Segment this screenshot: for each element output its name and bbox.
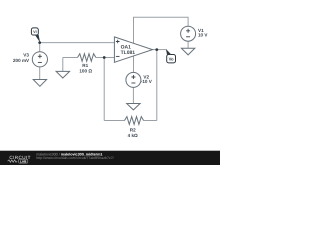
- V2 minus symbol: [131, 82, 135, 84]
- svg-text:100 Ω: 100 Ω: [79, 69, 92, 74]
- V3 plus symbol: [38, 54, 42, 58]
- svg-text:http://www.circuitlab.com/circ: http://www.circuitlab.com/circuit/77ab8f…: [36, 156, 113, 160]
- svg-text:TL081: TL081: [121, 50, 136, 56]
- ground V1: [181, 48, 194, 55]
- wire output right: [153, 49, 167, 51]
- wire V3 top: [39, 43, 41, 52]
- ground V3: [33, 80, 46, 87]
- flag Vo box: [167, 55, 176, 63]
- ground V2: [127, 104, 140, 110]
- wire R2 left lead: [104, 120, 124, 122]
- wire output vertical down: [156, 50, 158, 121]
- wire minus-input left segment: [63, 57, 78, 59]
- voltage source V3 circle: [32, 52, 47, 67]
- op-amp minus symbol: [116, 55, 120, 57]
- wire V+ supply run: [134, 17, 189, 43]
- wire V- pin down: [133, 56, 135, 73]
- V3 minus symbol: [38, 61, 42, 63]
- flag VI pointer: [35, 34, 41, 42]
- resistor R1 zigzag: [78, 54, 96, 62]
- logo zigzag: [8, 160, 18, 162]
- flag VI box: [31, 28, 38, 35]
- svg-text:4 kΩ: 4 kΩ: [128, 133, 138, 138]
- svg-text:V3: V3: [23, 52, 29, 57]
- wire feedback left vertical: [103, 58, 105, 121]
- wire left ground stub: [62, 58, 64, 72]
- svg-text:200 mV: 200 mV: [13, 58, 30, 63]
- svg-text:-10 V: -10 V: [141, 79, 153, 84]
- wire net VI: horizontal to op-amp + input: [40, 42, 115, 44]
- watermark bar: [0, 151, 220, 165]
- wire R2 right lead: [144, 120, 157, 122]
- logo LAB box: [19, 159, 28, 163]
- voltage source V1 circle: [181, 26, 196, 41]
- op-amp plus symbol: [116, 40, 120, 44]
- V1 minus symbol: [186, 36, 190, 38]
- wire minus-input right segment: [96, 57, 115, 59]
- wire V1 bottom to ground: [187, 41, 189, 48]
- svg-text:Vo: Vo: [169, 56, 174, 61]
- V1 plus symbol: [186, 29, 190, 33]
- svg-text:R1: R1: [82, 63, 88, 68]
- voltage source V2 circle: [126, 72, 141, 87]
- svg-text:10 V: 10 V: [198, 32, 208, 37]
- svg-text:R2: R2: [130, 128, 136, 133]
- junction node output: [155, 48, 158, 51]
- ground left (R1): [56, 71, 70, 78]
- junction node minus-input: [103, 56, 106, 59]
- wire V3 bottom to ground: [39, 67, 41, 80]
- resistor R2 zigzag: [125, 117, 144, 125]
- svg-text:LAB: LAB: [20, 159, 27, 163]
- wire V2 bottom to ground: [132, 87, 134, 103]
- svg-text:VI: VI: [33, 30, 36, 34]
- junction node VI: [38, 41, 41, 44]
- op-amp OA1 triangle: [114, 37, 152, 62]
- V2 plus symbol: [131, 75, 135, 79]
- flag Vo pointer: [166, 49, 171, 56]
